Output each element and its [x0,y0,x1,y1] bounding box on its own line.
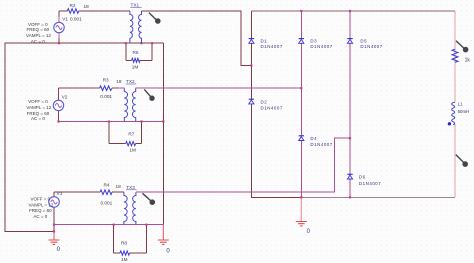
svg-text:AC = 0: AC = 0 [33,214,47,219]
svg-text:1M: 1M [121,257,128,262]
svg-text:50mH: 50mH [458,109,470,114]
svg-text:FREQ = 60: FREQ = 60 [29,208,52,213]
svg-text:VAMPL = 12: VAMPL = 12 [26,33,51,38]
svg-text:D5: D5 [360,38,367,43]
svg-text:R4: R4 [104,182,110,187]
svg-text:TX2: TX2 [126,79,135,84]
svg-text:D1N4007: D1N4007 [310,142,332,147]
svg-text:D1N4007: D1N4007 [261,106,283,111]
svg-text:D6: D6 [359,174,366,179]
svg-text:R3: R3 [103,78,109,83]
svg-text:D1: D1 [261,38,268,43]
svg-text:V2: V2 [62,95,68,100]
svg-text:FREQ = 60: FREQ = 60 [26,27,49,32]
svg-text:TX1: TX1 [131,2,140,7]
svg-text:V3: V3 [57,191,63,196]
svg-text:D3: D3 [310,38,317,43]
svg-text:R6: R6 [133,50,139,55]
svg-text:18: 18 [84,4,90,9]
svg-text:D1N4007: D1N4007 [310,44,332,49]
svg-text:R7: R7 [128,132,134,137]
svg-text:0.001: 0.001 [100,94,112,99]
svg-text:VAMPL = 12: VAMPL = 12 [29,202,54,207]
svg-text:VAMPL = 12: VAMPL = 12 [26,105,51,110]
svg-text:L1: L1 [458,102,463,107]
svg-text:VOFF = 0: VOFF = 0 [28,99,48,104]
svg-text:1k: 1k [465,58,471,64]
svg-text:D2: D2 [261,99,268,104]
svg-text:D1N4007: D1N4007 [360,44,382,49]
svg-text:1M: 1M [132,65,139,70]
svg-text:D1N4007: D1N4007 [359,181,381,186]
svg-text:VOFF = 0: VOFF = 0 [30,197,50,202]
svg-text:1M: 1M [129,148,136,153]
svg-text:0.001: 0.001 [70,16,82,21]
svg-text:D4: D4 [310,136,317,141]
svg-text:R2: R2 [70,3,76,8]
svg-text:18: 18 [116,184,122,189]
svg-text:TX3: TX3 [126,185,135,190]
svg-text:18: 18 [116,79,122,84]
svg-text:D1N4007: D1N4007 [261,44,283,49]
svg-text:0.001: 0.001 [101,200,113,205]
svg-text:AC = 0: AC = 0 [31,39,45,44]
svg-text:R8: R8 [121,241,127,246]
svg-text:V1: V1 [62,16,68,21]
svg-text:AC = 0: AC = 0 [31,116,45,121]
